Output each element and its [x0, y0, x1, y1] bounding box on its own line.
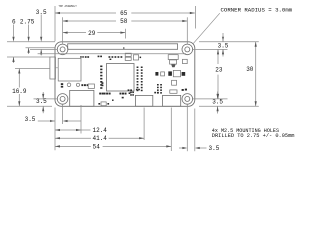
svg-text:23: 23 — [215, 67, 223, 74]
svg-text:16.9: 16.9 — [12, 88, 27, 95]
svg-text:54: 54 — [93, 143, 101, 150]
svg-text:TOP ASSEMBLY: TOP ASSEMBLY — [58, 5, 77, 8]
svg-text:3.5: 3.5 — [25, 116, 36, 123]
svg-text:DRILLED TO 2.75 +/- 0.05mm: DRILLED TO 2.75 +/- 0.05mm — [212, 133, 295, 139]
svg-text:65: 65 — [120, 10, 128, 17]
svg-text:3.5: 3.5 — [218, 43, 229, 50]
svg-text:12.4: 12.4 — [93, 127, 108, 134]
svg-text:58: 58 — [120, 18, 128, 25]
svg-text:3.5: 3.5 — [212, 99, 223, 106]
svg-text:41.4: 41.4 — [93, 135, 108, 142]
svg-text:CORNER RADIUS = 3.0mm: CORNER RADIUS = 3.0mm — [221, 7, 293, 14]
svg-text:30: 30 — [246, 66, 254, 73]
svg-text:29: 29 — [88, 30, 96, 37]
svg-text:6: 6 — [12, 19, 16, 26]
svg-text:3.5: 3.5 — [36, 98, 47, 105]
svg-text:2.75: 2.75 — [20, 19, 35, 26]
svg-text:3.5: 3.5 — [209, 145, 220, 152]
